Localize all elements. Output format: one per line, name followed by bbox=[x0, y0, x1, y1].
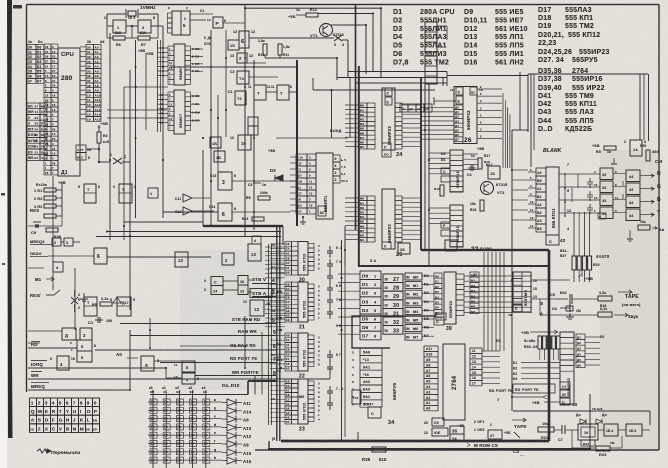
transistor VT2 bbox=[481, 182, 494, 195]
wire ie10 outs bbox=[437, 25, 447, 27]
wire wr portfe row bbox=[195, 375, 276, 377]
RAM chips D27-D33 boxes bbox=[383, 274, 403, 283]
CPU control pin boxes left column bbox=[27, 103, 40, 109]
wire D6 out right bbox=[107, 256, 211, 258]
gate small 4 bbox=[53, 262, 63, 272]
resistor R35 bbox=[372, 447, 386, 452]
wire horizontal y130 right bbox=[512, 129, 528, 131]
gate AND column out bbox=[626, 170, 640, 182]
gate 1B a bbox=[210, 137, 221, 148]
ROM output pin boxes bbox=[470, 348, 482, 353]
gate P box bbox=[213, 17, 223, 28]
oscillator gate D2.2 bbox=[138, 20, 151, 33]
wire pull rows bbox=[56, 189, 62, 191]
wire x373 drop bbox=[372, 14, 374, 72]
wire D37 pins left bbox=[429, 152, 450, 154]
diode D3 bbox=[275, 175, 283, 181]
flip-flop D7 TM2 bbox=[84, 184, 96, 203]
inverter triangle 2 bbox=[183, 207, 192, 215]
gate 1B c stack bbox=[248, 126, 258, 135]
thick bus vertical x358 bbox=[358, 66, 360, 266]
register D25 555IR23 bbox=[359, 196, 367, 201]
RAM IN M pin boxes bbox=[405, 273, 422, 280]
flip-flop D41 pins bottom bbox=[513, 304, 522, 312]
wire corner x124 bbox=[124, 86, 168, 88]
bus vertical x429 bbox=[428, 84, 430, 267]
wire VT1 collector out bbox=[331, 24, 366, 26]
wire bus down left x110 bbox=[109, 33, 111, 240]
thick bus vertical x297 bbox=[296, 60, 298, 226]
resistor R36 bbox=[46, 228, 58, 232]
register D24 E pin box bbox=[385, 97, 392, 105]
resistor R row4 bbox=[44, 214, 56, 218]
gate XOR E box bbox=[598, 213, 606, 219]
termination cap symbols column bbox=[327, 246, 333, 258]
resistor R10 vertical bbox=[263, 44, 267, 55]
wire vertical x157 pair bbox=[157, 40, 159, 132]
wire vertical x146 bbox=[145, 53, 147, 130]
keyboard matrix grid bbox=[30, 398, 37, 407]
wire bottom corner join bbox=[268, 441, 270, 450]
wire x255 drop to matrix bbox=[254, 375, 256, 395]
wire wr gate links bbox=[165, 368, 167, 378]
wire D26 inputs bbox=[421, 106, 454, 108]
wire bus trunk x254 bbox=[253, 60, 255, 230]
wire osc out down bbox=[158, 25, 163, 27]
wire ROM outs bbox=[482, 350, 500, 352]
wire bottom bus y449 bbox=[268, 448, 590, 450]
wire D25 out rows bbox=[402, 197, 421, 199]
jumper X2 3-3 bbox=[334, 35, 342, 41]
transistor VT1 bbox=[320, 24, 333, 37]
wire x226 vertical bbox=[225, 30, 227, 137]
flip-flop D4 box bbox=[237, 71, 249, 84]
wire keyboard column stubs bbox=[152, 390, 154, 395]
resistor R5 bbox=[100, 302, 112, 306]
wire x160 stub bbox=[159, 348, 161, 368]
resistor R3 bbox=[44, 204, 56, 208]
wire pair links bbox=[223, 280, 238, 282]
wire left mid extras bbox=[28, 225, 62, 227]
wire frame drop x355 bbox=[355, 5, 357, 231]
wire D39 out rows bbox=[464, 275, 532, 277]
wire D39 out col boxes bbox=[470, 272, 479, 277]
register D38 555IR16 bbox=[450, 205, 463, 247]
wire x203 vertical bbox=[202, 150, 204, 226]
oscillator gate D2.1 bbox=[113, 20, 126, 33]
wire x381 drop bbox=[380, 8, 382, 78]
gate 13 box d bbox=[250, 300, 264, 316]
gate 3 box bbox=[218, 172, 232, 190]
wire gate links top bbox=[246, 62, 266, 64]
register D39 555IR22 bbox=[434, 273, 442, 278]
wire D38 pins bbox=[429, 207, 450, 209]
capacitor C3 bbox=[253, 182, 261, 184]
wire y13.5 to x373 bbox=[318, 13, 373, 15]
mux D22 555KP12 body bbox=[298, 333, 308, 371]
resistor R14 bbox=[306, 13, 318, 17]
gate 15 box bbox=[238, 135, 251, 150]
wire x366 drop bbox=[365, 25, 367, 74]
flip-flop D8 TM2 bbox=[119, 184, 132, 203]
resistor R13 horizontal bbox=[252, 217, 264, 221]
resistor R11 vertical bbox=[278, 44, 282, 55]
wire KP11 outs bbox=[559, 173, 600, 175]
wire feedback loop bottom bbox=[513, 410, 650, 412]
wire D24 out rows bbox=[402, 104, 421, 106]
gate 6 box big bbox=[218, 203, 232, 221]
diode D17 symbol bbox=[113, 297, 121, 307]
thick bus vertical x421 bbox=[420, 77, 422, 250]
resistor R6 bbox=[113, 36, 125, 40]
wire rd gate out bbox=[95, 349, 276, 351]
resistor R22 small bbox=[581, 440, 595, 446]
IC D13 555LP1 body bbox=[316, 153, 333, 219]
wire drops to KP11 bbox=[530, 74, 532, 167]
wire rd gate out bbox=[180, 345, 245, 347]
wire y222 link bbox=[124, 221, 203, 223]
gate 13 box c bbox=[248, 244, 261, 261]
wire y90 step run bbox=[313, 89, 435, 91]
wire rgb outs bbox=[640, 174, 654, 178]
register D40 C box bbox=[560, 398, 570, 405]
wire D40 outs bbox=[585, 336, 600, 338]
mux D20 output pin boxes bbox=[308, 244, 314, 249]
wire rom cs vertical bbox=[589, 394, 591, 449]
wire long y118 bbox=[107, 117, 167, 119]
ground bottom right bbox=[629, 234, 631, 239]
wire x337 drop bbox=[336, 57, 338, 80]
IC D13 1B bottom box bbox=[318, 206, 326, 216]
address bus label boxes bbox=[94, 45, 102, 50]
RAM casc gate 43 bbox=[368, 407, 381, 418]
capacitor C1 bbox=[95, 319, 103, 321]
wire dac out drops bbox=[622, 181, 624, 186]
register D40 555IR22 body bbox=[560, 332, 574, 404]
gate right small bbox=[630, 140, 642, 156]
flip-flop D19a bbox=[84, 297, 97, 316]
gate box low3 bbox=[62, 328, 76, 340]
gate 4 small above bbox=[252, 236, 261, 244]
flip-flop D19b bbox=[117, 297, 131, 316]
register D26 555IR23 body bbox=[454, 87, 477, 144]
wire y83 run bbox=[355, 82, 447, 84]
wire D26 E tbar bbox=[434, 100, 456, 102]
resistor R9 horizontal bbox=[258, 196, 270, 200]
wire y212 link bbox=[163, 211, 218, 213]
wire mux to ram horizontals bbox=[338, 273, 360, 275]
wire RAM OE U-shape bbox=[352, 316, 436, 348]
wire y38 to jumper bbox=[249, 37, 334, 39]
mux D21 output pin boxes bbox=[308, 284, 314, 289]
scan edge black strip bbox=[7, 0, 13, 438]
gate D5 wr pair bbox=[182, 361, 195, 372]
flip-flop T 1 bbox=[254, 85, 266, 100]
register D37 control boxes bbox=[441, 168, 450, 174]
resistor R20 vertical bbox=[646, 150, 650, 161]
wire y75 run right bbox=[447, 75, 528, 77]
scan smudge top-left bbox=[13, 5, 22, 9]
wire IE7 right stubs bbox=[191, 48, 204, 50]
diode matrix rows bbox=[148, 401, 222, 403]
mux D42 select box bbox=[546, 235, 559, 245]
register D26 C pin box bbox=[456, 87, 463, 95]
wire dac column wires bbox=[613, 173, 626, 175]
mux D21 555KP12 body bbox=[298, 282, 308, 322]
mux D21 555KP12 input pin boxes bbox=[285, 282, 292, 286]
IC D13 555LP1 input label boxes bbox=[296, 154, 307, 160]
CPU data bus labels far left bbox=[27, 45, 36, 50]
resistor R1 pull row bbox=[44, 188, 56, 192]
wire CPU reset net bbox=[86, 148, 99, 150]
capacitor C9 bbox=[33, 221, 41, 223]
gate box low3b bbox=[80, 328, 92, 340]
mux D23 555KP12 body bbox=[298, 379, 308, 424]
wire verticals center bottom bbox=[344, 226, 346, 266]
wire address rows bbox=[80, 46, 86, 48]
gate 2 box mid bbox=[237, 53, 247, 63]
scan shading center bbox=[180, 250, 300, 390]
switch SA jumper bbox=[71, 297, 78, 304]
jumper legend squiggle bbox=[37, 449, 50, 453]
register D24 555IR23 bbox=[359, 103, 367, 108]
register D38 control boxes bbox=[441, 222, 450, 228]
RAM block t41 gate bbox=[352, 390, 361, 404]
register D37 555IR16 bbox=[450, 150, 463, 192]
gate small x150 bbox=[148, 188, 158, 198]
tape gate 3 bbox=[626, 424, 642, 436]
dac junction dots bbox=[564, 173, 566, 175]
bus entry boxes row bbox=[400, 104, 408, 112]
wire y330 left link bbox=[28, 330, 62, 332]
gate 1B box bbox=[228, 40, 239, 50]
mux D20 555KP12 body bbox=[298, 242, 308, 276]
enclosure left edge double line bbox=[276, 227, 278, 441]
mux D22 output pin boxes bbox=[308, 335, 314, 340]
counter D12 561IE10 column x427 bbox=[425, 22, 437, 52]
counter D11 555IE7 bbox=[168, 92, 174, 97]
wire vertical x341 bbox=[341, 240, 343, 440]
wire x211 vertical bbox=[210, 30, 212, 226]
ground c6 bbox=[569, 313, 571, 317]
gate 1B b bbox=[214, 151, 225, 162]
gate 2 box b bbox=[222, 253, 234, 265]
ground at D13 bbox=[302, 217, 304, 222]
wire vertical x135 pair bbox=[135, 40, 137, 218]
diode D17 bbox=[230, 240, 236, 246]
wire x262 drop bbox=[261, 332, 263, 395]
wire long vertical x520 bbox=[519, 72, 521, 130]
mux D23 555KP12 input pin boxes bbox=[285, 379, 292, 384]
junction dots buses bbox=[135, 66, 137, 68]
register D40 lower pins bbox=[560, 382, 570, 389]
wire osc top bbox=[107, 13, 126, 15]
resistor R7 bbox=[138, 36, 150, 40]
resistor R17 vertical bbox=[478, 158, 482, 169]
CPU AVT box bbox=[76, 145, 86, 153]
ROM 2764 D35 box bbox=[443, 344, 465, 420]
wire stb rows to enclosure bbox=[276, 277, 281, 279]
wire dac inter verticals bbox=[564, 174, 566, 216]
resistor R out 10k bbox=[638, 225, 650, 230]
ground right bbox=[613, 158, 615, 164]
resistor pack 4x470 bbox=[572, 256, 576, 270]
wire ram to ir22 bbox=[422, 275, 434, 277]
ROM OE box bbox=[432, 428, 448, 436]
sub-box border right bbox=[528, 73, 648, 75]
wire y8 long top bbox=[245, 7, 381, 9]
wire x218 vertical bbox=[217, 95, 219, 172]
enclosure bottom edge bbox=[281, 440, 549, 442]
main border frame bbox=[27, 4, 660, 6]
wire y67 mid bbox=[170, 66, 297, 68]
resistor R23 bbox=[596, 446, 610, 451]
wire bus trunk x245 bbox=[244, 5, 246, 237]
register D26 BU pin box bbox=[470, 87, 477, 95]
enclosure video-memory top edge bbox=[203, 225, 283, 227]
wire D13 left feeds bbox=[290, 156, 296, 158]
wire x331 drop to BOKD bbox=[331, 90, 333, 138]
CPU U-D1 Z80 box bbox=[58, 48, 80, 176]
counter D9 555IE5 bbox=[172, 11, 190, 35]
net sound out bbox=[614, 313, 628, 317]
wire D26 outputs right bbox=[477, 88, 502, 90]
gate C-14 pair column bbox=[211, 277, 223, 286]
wire kp11 left feeds bbox=[512, 169, 528, 171]
wire y77 run to D26 bbox=[337, 77, 447, 79]
wire D26 out drops bbox=[501, 89, 503, 160]
resistor R21 bbox=[538, 427, 554, 432]
scan shading right band bbox=[600, 150, 660, 450]
CPU data pin boxes left bbox=[36, 45, 44, 50]
wire mux feed verticals bbox=[268, 244, 270, 425]
wire respack verticals bbox=[573, 212, 575, 256]
CPU KLC box bbox=[76, 153, 86, 161]
gate S iorq bbox=[141, 356, 154, 371]
wire D24 in rows bbox=[345, 104, 359, 106]
capacitor C4 bbox=[468, 167, 476, 169]
inverter triangle 1 bbox=[183, 194, 192, 202]
thick link y381 bbox=[248, 380, 277, 382]
wire long y110 left bbox=[107, 109, 167, 111]
RAM address rows lower bbox=[360, 348, 382, 355]
gate 13 box a bbox=[175, 252, 188, 267]
register D40 right pin boxes bbox=[576, 334, 585, 340]
ROM address pin boxes bbox=[424, 346, 438, 351]
tape input gate box bbox=[578, 424, 598, 440]
resistor R2 bbox=[44, 196, 56, 200]
wire ROM outs join bbox=[483, 251, 485, 253]
RAM block data row labels bbox=[360, 271, 381, 280]
gate 4 box low bbox=[57, 356, 69, 370]
register D24 clock pins bbox=[382, 143, 391, 150]
wire y71 run to D26 bbox=[348, 71, 447, 73]
wire y236 long bbox=[96, 236, 281, 238]
mux D20 input wires bbox=[270, 243, 285, 245]
gate D6 box bbox=[94, 248, 107, 264]
wire IE7 stubs with junctions bbox=[158, 47, 168, 49]
resistor R16 vertical bbox=[440, 185, 444, 196]
register D39 C box designator bbox=[434, 317, 444, 325]
CPU address pin boxes right bbox=[86, 45, 94, 50]
net RD PORT FE arrow bbox=[513, 384, 555, 393]
gate 10-13 pair column bbox=[238, 276, 248, 286]
wire ie5 outs bbox=[190, 13, 213, 15]
wire ROM data out verticals bbox=[483, 252, 485, 351]
dac cap symbols bbox=[587, 178, 593, 188]
mux D22 555KP12 input pin boxes bbox=[285, 333, 292, 338]
mux D20 555KP12 input pin boxes bbox=[285, 242, 292, 247]
register D39 EO box bbox=[436, 313, 446, 320]
wire vertical x345b bbox=[344, 240, 346, 437]
bus vertical x425 bbox=[424, 84, 426, 250]
ROM CS box bbox=[432, 418, 444, 426]
IC D13 555LP1 inner pin cells bbox=[307, 154, 316, 160]
register D26 E pin box bbox=[456, 96, 463, 104]
mux D23 input wires bbox=[270, 380, 285, 382]
wire tm9 right outs bbox=[531, 279, 570, 281]
enclosure top right edge bbox=[421, 249, 549, 251]
wire D26 feed drops bbox=[446, 72, 448, 87]
gate 33 box bbox=[445, 240, 457, 251]
wire matrix top border bbox=[150, 394, 248, 396]
gate D small 1 bbox=[52, 238, 61, 246]
flip-flop T 2 bbox=[277, 85, 289, 100]
wire verticals right cluster bbox=[639, 74, 641, 140]
gate 6 box mid bbox=[239, 31, 249, 48]
switch jumper X1 bbox=[99, 161, 110, 163]
wire D25 in rows bbox=[345, 197, 359, 199]
tape gate 2 bbox=[604, 424, 618, 436]
flip-flop D41 555TM9 bbox=[513, 272, 531, 312]
gate XOR column LP5 bbox=[600, 168, 613, 180]
gate 25 box bbox=[398, 243, 410, 254]
capacitor C7 bbox=[554, 429, 562, 431]
wire rd port fe row bbox=[160, 362, 276, 364]
wire y40 bend down x348 bbox=[342, 39, 348, 41]
wire gates to bus bbox=[232, 180, 297, 182]
wire D37 outs right bbox=[463, 153, 478, 155]
mux D22 input wires bbox=[270, 334, 285, 336]
mux D21 input wires bbox=[270, 283, 285, 285]
wire y343 stub bbox=[28, 342, 40, 344]
resistor R18 vertical bbox=[480, 200, 484, 211]
resistor R19 bbox=[598, 296, 612, 301]
memory box top edge bbox=[358, 265, 549, 267]
wire D26 output bundle drops bbox=[502, 93, 504, 168]
register D25 clock pin bbox=[382, 242, 391, 249]
mux D42 555KP11 body bbox=[546, 167, 559, 235]
gate D5.1 rd pair bbox=[77, 340, 92, 351]
wire long vertical x512 bbox=[511, 130, 513, 411]
counter D10 555IE7 bbox=[168, 46, 174, 51]
ROM designator boxes 35/34 bbox=[450, 426, 464, 434]
gate 27 small bbox=[488, 430, 502, 439]
enclosure right edge bbox=[548, 250, 550, 441]
wire x130 mreq up bbox=[129, 330, 131, 390]
diode matrix vertical lines bbox=[152, 395, 154, 468]
mux D42 555KP11 inputs bbox=[536, 168, 546, 176]
register D24 C pin box bbox=[385, 88, 392, 96]
wire bus down x130 bbox=[129, 70, 131, 310]
mux D23 output pin boxes bbox=[308, 381, 314, 386]
gate D13 1B box bbox=[488, 166, 500, 179]
resistor R25 bbox=[598, 312, 612, 317]
wire y231 long bbox=[107, 231, 281, 233]
gate D small 2 bbox=[64, 238, 73, 246]
IC D13 right pin cells bbox=[333, 155, 340, 162]
wire y58 run bbox=[265, 57, 337, 59]
